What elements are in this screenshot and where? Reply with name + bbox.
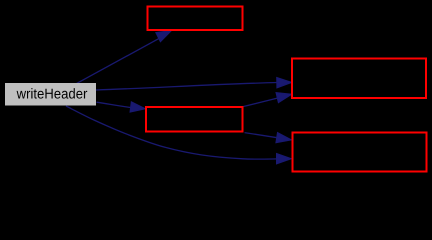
wire edge middle node to bottom right node <box>245 133 292 143</box>
node top box (red border) <box>148 7 243 31</box>
wire edge middle node to right middle node <box>244 93 292 107</box>
node bottom right box (red border) <box>293 133 427 172</box>
wire edge writeHeader to bottom right node (curved) <box>66 106 292 164</box>
node writeHeader (grey box) <box>5 83 96 106</box>
label writeHeader <box>17 88 88 99</box>
node right middle box (red border) <box>292 59 426 99</box>
wire edge writeHeader to middle node <box>97 102 146 112</box>
wire edge writeHeader to top node <box>76 31 172 84</box>
wire edge writeHeader to right middle node <box>96 78 292 91</box>
node middle box (red border) <box>146 107 243 132</box>
